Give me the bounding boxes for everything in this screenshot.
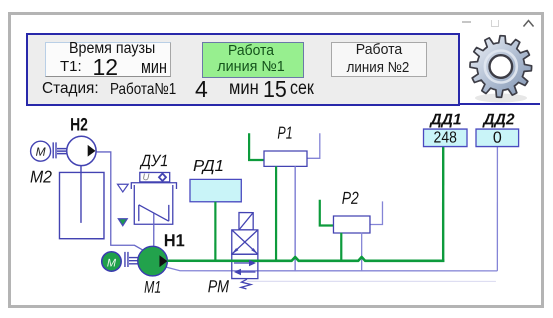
pause-time box	[45, 42, 171, 77]
svg-text:РМ: РМ	[208, 276, 230, 296]
level sensor DU1	[131, 172, 176, 224]
motor M1	[102, 252, 121, 271]
sensor DD1	[424, 129, 468, 147]
coupling M1-H1	[125, 252, 138, 267]
svg-text:U: U	[143, 172, 150, 183]
svg-text:0: 0	[493, 130, 502, 147]
svg-text:М1: М1	[144, 278, 161, 297]
drain line (faint)	[247, 280, 496, 282]
svg-text:ДД2: ДД2	[481, 111, 515, 128]
pipe to sensor DD1	[442, 147, 444, 263]
sensor DD2	[476, 129, 519, 147]
svg-text:248: 248	[434, 130, 457, 147]
valve RM flow arrows	[234, 263, 256, 272]
svg-text:РД1: РД1	[193, 158, 224, 175]
press P2	[333, 216, 370, 233]
valve RM solenoid	[239, 213, 253, 230]
press P1	[264, 151, 307, 166]
coupling M2-H2	[53, 142, 66, 158]
divider line under gear	[459, 103, 540, 105]
wire: P2 return hook (blue)	[369, 201, 382, 224]
wire: P1 return leg (blue)	[294, 166, 296, 270]
svg-text:ДД1: ДД1	[428, 111, 461, 128]
svg-text:М: М	[36, 145, 46, 159]
stage status row	[42, 80, 99, 98]
level mark min	[118, 219, 127, 226]
wire: P2 return leg (blue)	[361, 233, 363, 271]
valve RM crossed-port arrowheads	[232, 248, 239, 254]
valve RM spring	[241, 279, 251, 289]
wire: P1 supply hook (green)	[249, 133, 264, 160]
svg-text:ДУ1: ДУ1	[139, 152, 168, 170]
return pipe (H1 to DD2 elbow)	[166, 267, 498, 271]
pump H1	[138, 246, 168, 276]
DU1 status diamond	[159, 173, 166, 181]
valve RM body	[232, 230, 258, 279]
pump H2	[67, 136, 96, 165]
pipe from pump H2 to pump H1	[96, 152, 144, 251]
level mark max	[117, 184, 128, 192]
wire: P2 supply hook (green)	[320, 200, 333, 226]
motor M2	[31, 141, 51, 161]
pressure switch RD1	[190, 179, 241, 201]
line2 run button	[331, 42, 427, 77]
svg-text:М2: М2	[30, 168, 53, 187]
svg-text:М: М	[107, 257, 117, 269]
suction line into tank	[80, 166, 82, 223]
window minimize mark	[462, 21, 471, 23]
svg-text:Н1: Н1	[164, 230, 185, 250]
pipe DD2	[496, 147, 498, 271]
wire: P2 supply leg (green)	[340, 233, 342, 261]
pipe RD1 to main line	[214, 202, 216, 261]
tank	[59, 172, 104, 238]
pipe DU1 to H1	[153, 213, 155, 247]
svg-text:Р1: Р1	[277, 123, 292, 143]
window close mark	[523, 19, 534, 29]
control panel	[26, 33, 460, 106]
svg-text:Н2: Н2	[70, 115, 88, 135]
svg-text:Р2: Р2	[342, 188, 359, 208]
line1 run button (green)	[202, 42, 304, 78]
window maximize mark	[491, 20, 499, 27]
main pressure pipe	[167, 257, 444, 261]
wire: P1 return hook (blue)	[307, 133, 320, 158]
wire: P1 supply leg (green)	[275, 166, 277, 261]
